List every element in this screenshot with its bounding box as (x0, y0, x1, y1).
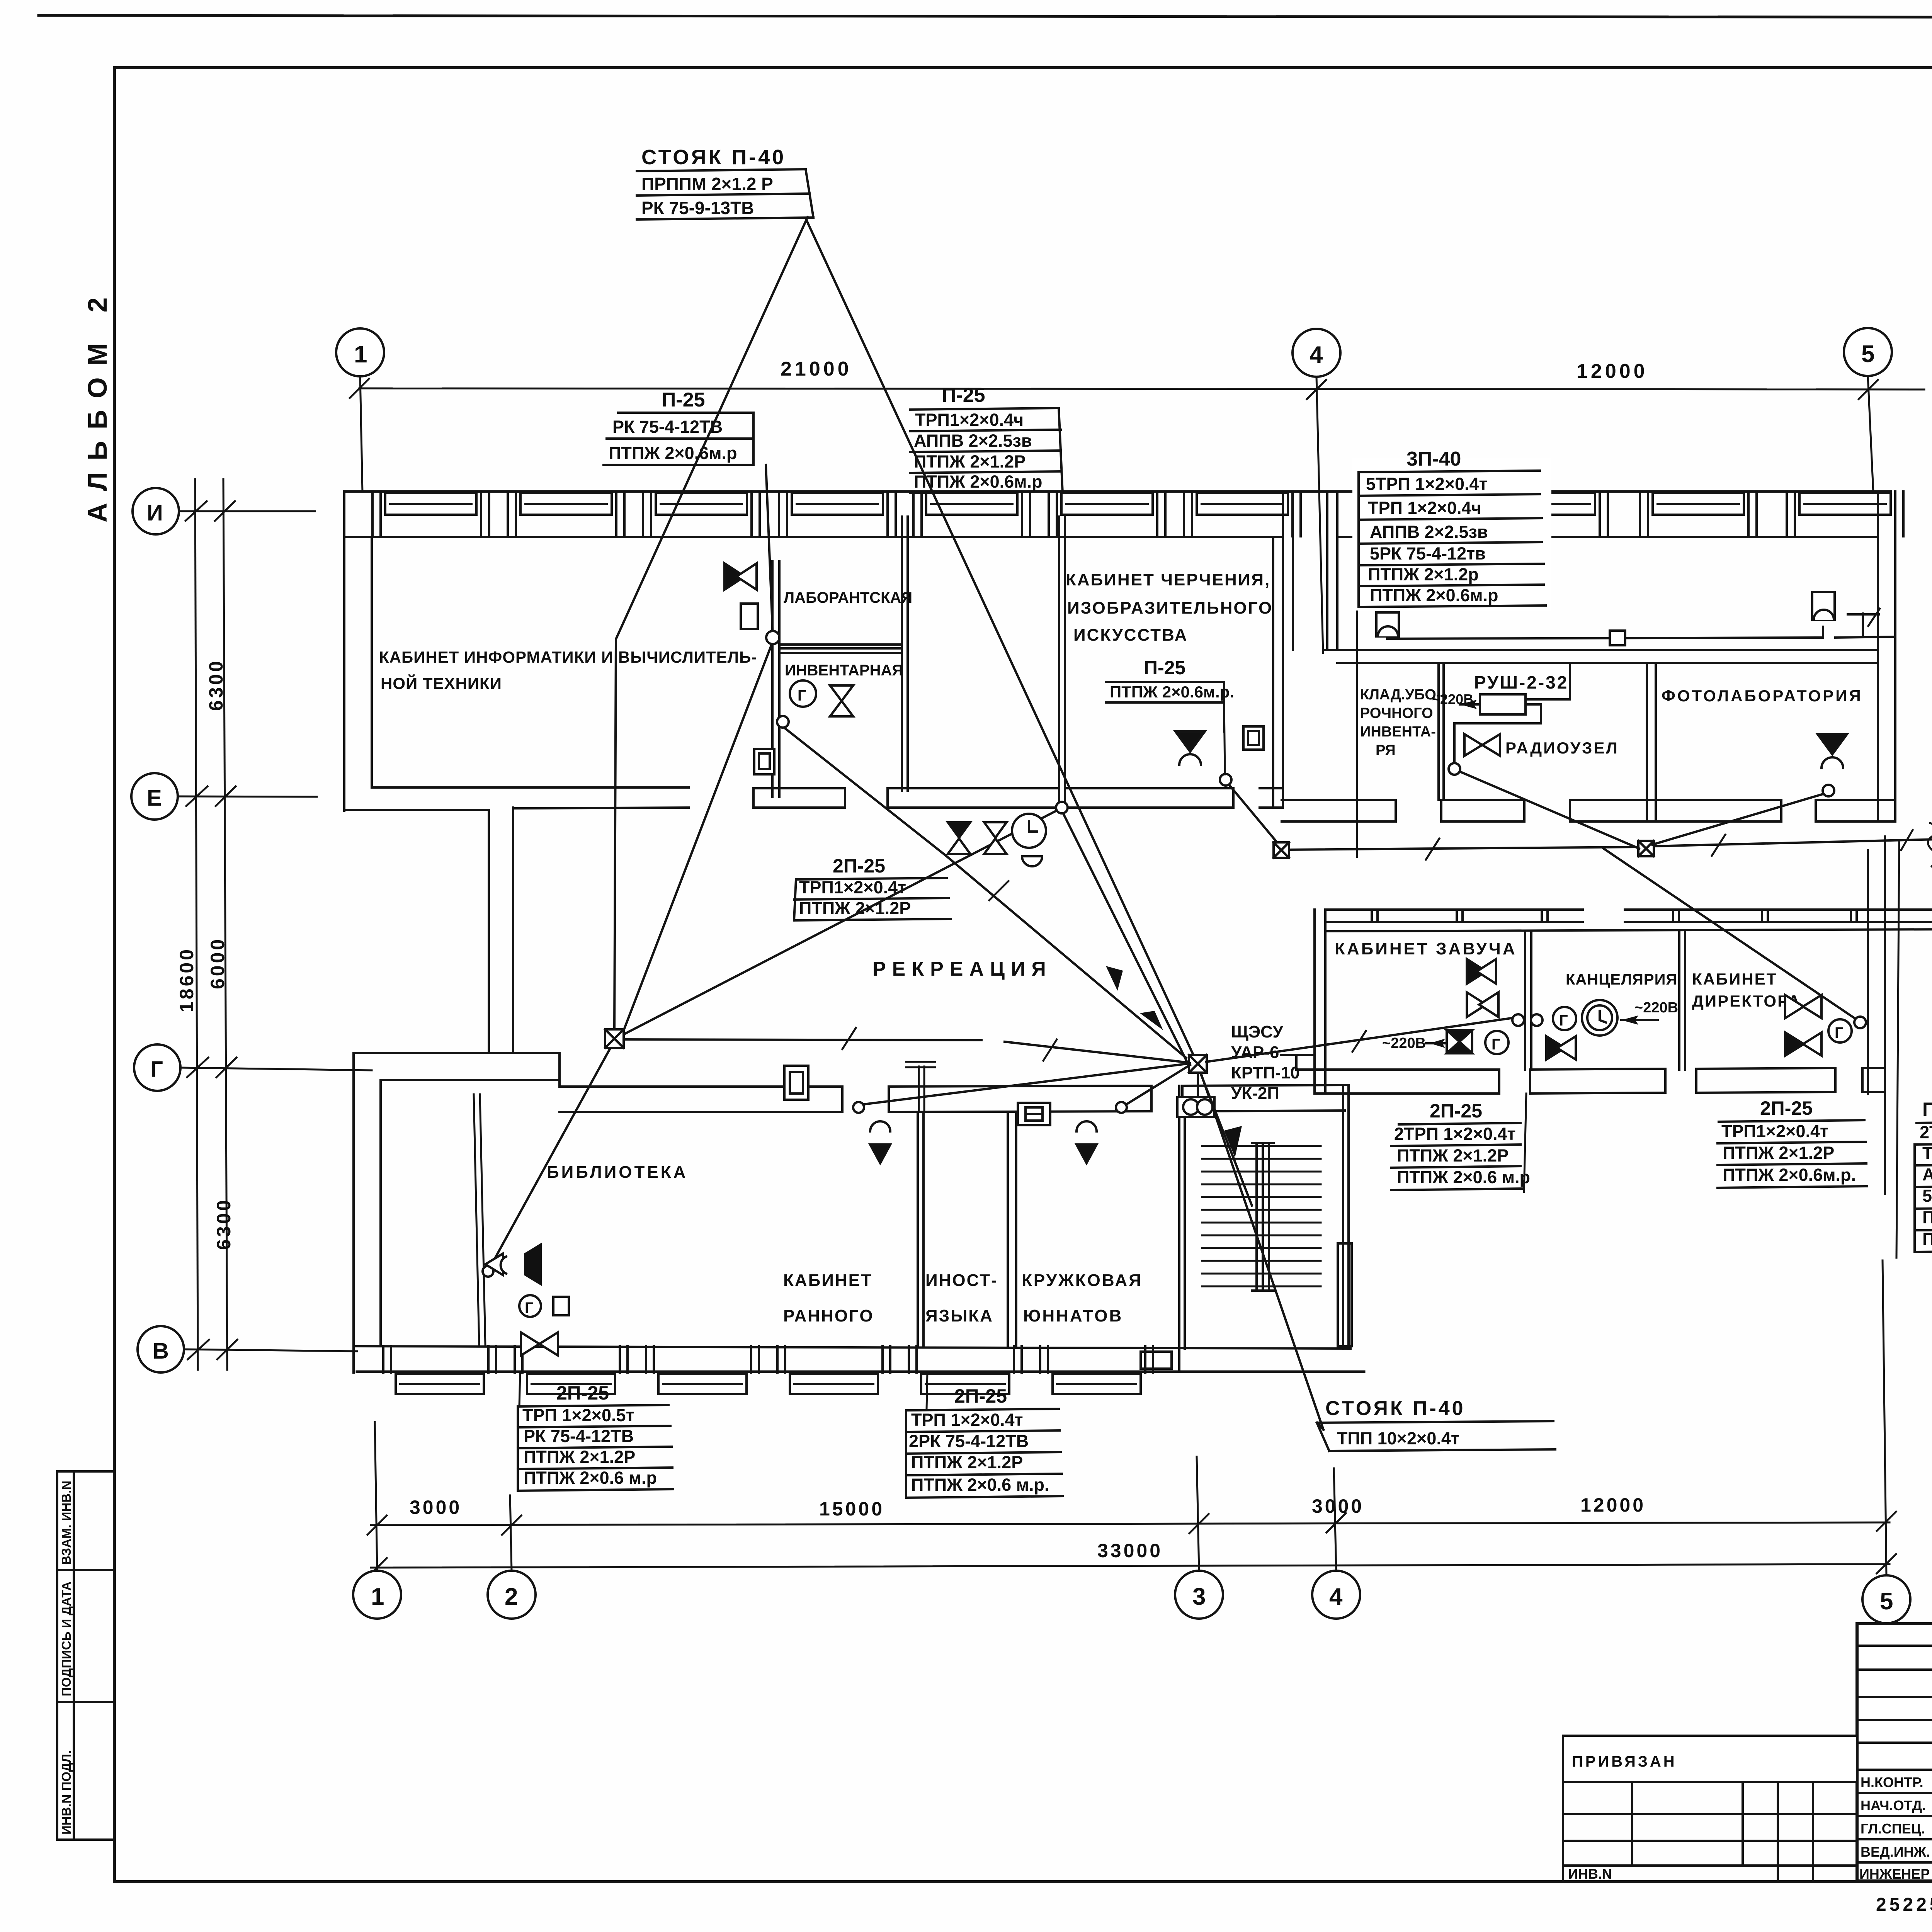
РУШ-2-32 box и проводка (1454, 663, 1570, 767)
svg-text:ГЛ.СПЕЦ.: ГЛ.СПЕЦ. (1861, 1821, 1925, 1837)
svg-text:СТОЯК П-40: СТОЯК П-40 (1325, 1397, 1466, 1420)
подвал надписи (1876, 1885, 1932, 1916)
svg-text:ЛАБОРАНТСКАЯ: ЛАБОРАНТСКАЯ (784, 589, 912, 606)
wall канцелярия/директора (1679, 931, 1685, 1070)
left stamp box (ВЗАМ.ИНВ.N / ПОДПИСЬ И ДАТА / ИНВ.N ПОДЛ.) (57, 1471, 114, 1840)
svg-text:Г: Г (1559, 1012, 1568, 1029)
svg-text:ТРП1×2×0.4ч: ТРП1×2×0.4ч (915, 410, 1024, 430)
wall библиотека/иностр.языка (918, 1112, 923, 1346)
часы рекреации (1012, 814, 1046, 866)
room label информатика (379, 648, 757, 692)
svg-text:2: 2 (505, 1583, 518, 1610)
north wall windows (372, 492, 1903, 536)
axis circle Г left (134, 1044, 372, 1091)
svg-text:ПОДПИСЬ И ДАТА: ПОДПИСЬ И ДАТА (59, 1582, 73, 1696)
fotolab block corridor wall (1324, 650, 1878, 663)
cable X2 to фотолаборатория node (1652, 793, 1827, 845)
corridor south-west wall (354, 1053, 560, 1086)
steep cable стояк П-40 к коробке L (614, 217, 808, 1029)
пристройка west wall (1315, 910, 1325, 1094)
svg-text:5: 5 (1880, 1588, 1893, 1615)
sheet outer top edge line (39, 15, 1932, 18)
svg-text:ПТПЖ 2×0.6м.р: ПТПЖ 2×0.6м.р (1370, 585, 1498, 605)
node кружковая (1116, 1102, 1127, 1113)
north outer wall line (344, 490, 1891, 493)
bottom dimension line 2 (33000) (367, 1540, 1896, 1577)
svg-text:ТРП 1×2×0.5т: ТРП 1×2×0.5т (522, 1405, 634, 1425)
svg-text:П-25: П-25 (662, 389, 705, 411)
bottom dimension line 1 (3000/15000/3000/12000) (367, 1494, 1896, 1535)
привязан grid (1563, 1782, 1857, 1882)
axis circle 5 top (1844, 328, 1892, 492)
circle Г инвентарная (790, 680, 816, 707)
svg-text:21000: 21000 (781, 358, 852, 380)
room label кабинет иностранного языка (783, 1271, 998, 1325)
svg-text:ПТПЖ 2×1.2Р: ПТПЖ 2×1.2Р (911, 1452, 1023, 1472)
lower band north wall (corridor south) (560, 1085, 1349, 1112)
перемычка слева от пристройки (1281, 1055, 1315, 1070)
cable table 3П-40 (right of axis 4) (1352, 458, 1551, 611)
светильник фотолаборатории (1818, 734, 1847, 768)
svg-text:ВЕД.ИНЖ.: ВЕД.ИНЖ. (1861, 1844, 1930, 1860)
svg-text:ЯЗЫКА: ЯЗЫКА (925, 1306, 993, 1325)
svg-text:ТРП 1×2×0.4ч: ТРП 1×2×0.4ч (1368, 498, 1481, 518)
стояк кружковой (двойная с Т) (906, 1062, 935, 1112)
title block left grid (1857, 1624, 1932, 1881)
привязан box (1563, 1736, 1857, 1782)
svg-text:РК 75-9-13ТВ: РК 75-9-13ТВ (641, 198, 754, 218)
светильники рекреации (948, 822, 1007, 854)
громкоговорители завуча (1467, 959, 1498, 1017)
north wall inner line (main block) (344, 536, 1283, 538)
corridor cable y2199 (1289, 823, 1932, 866)
черчения node left (1056, 802, 1068, 813)
щиток завуча (black X box) (1447, 1030, 1472, 1053)
west wall upper (двойная) (344, 492, 372, 811)
svg-text:ПТПЖ 2×1.2Р: ПТПЖ 2×1.2Р (914, 452, 1026, 471)
circle Г библиотеки (519, 1295, 541, 1317)
room label кружковая юннатов (1022, 1271, 1143, 1325)
светильник кабинет раннего (870, 1121, 890, 1163)
svg-text:25225-02: 25225-02 (1876, 1895, 1932, 1915)
лестница ограждение (1252, 1143, 1274, 1291)
cable hub down to лестница (стрелка) (1201, 1074, 1252, 1206)
lower band west wall (двойная) (354, 1053, 381, 1372)
hub УК-2П box with two circles (1177, 1073, 1214, 1117)
svg-text:3П-40: 3П-40 (1406, 448, 1461, 470)
громкоговоритель библиотеки нижний (521, 1332, 558, 1355)
junction box X1 (1274, 842, 1289, 858)
cable table П-25 (черчения room) (1106, 657, 1234, 731)
лаборантская node2 (777, 716, 789, 728)
розетка с крестом иняз (1018, 1103, 1050, 1125)
svg-text:РУШ-2-32: РУШ-2-32 (1474, 672, 1568, 692)
svg-text:Н.КОНТР.: Н.КОНТР. (1861, 1774, 1923, 1790)
svg-text:ПТПЖ 2×0.6м.р.: ПТПЖ 2×0.6м.р. (1723, 1165, 1856, 1185)
svg-text:ИСКУССТВА: ИСКУССТВА (1073, 626, 1188, 645)
wall иностр.языка/кружковая (1008, 1112, 1016, 1346)
wall инвентарная east (двойная) (902, 517, 908, 791)
circle Г директора (1828, 1019, 1852, 1043)
svg-text:3: 3 (1192, 1583, 1206, 1610)
cable черчения node-2 to X1 (steep) (1229, 784, 1279, 845)
svg-text:ПТПЖ 2×1.2р: ПТПЖ 2×1.2р (1368, 565, 1479, 584)
wall радиоузел/фотолаборатория (двойная) (1647, 663, 1656, 821)
svg-text:РК 75-4-12ТВ: РК 75-4-12ТВ (524, 1426, 634, 1446)
left dimension lines (176, 479, 237, 1370)
svg-text:ЩЭСУ: ЩЭСУ (1231, 1022, 1283, 1041)
svg-text:ПТПЖ 2×0.6м.р.: ПТПЖ 2×0.6м.р. (1110, 683, 1234, 701)
left stamp texts (59, 1481, 73, 1835)
axis circle 4 top (1293, 329, 1340, 653)
пристройка завуча: top windows band (1325, 910, 1932, 922)
svg-text:КАБИНЕТ ЗАВУЧА: КАБИНЕТ ЗАВУЧА (1335, 939, 1517, 958)
svg-text:ИНВЕНТА-: ИНВЕНТА- (1360, 724, 1436, 740)
cable node1 лаборантской к коробке L (623, 641, 773, 1032)
svg-text:ИЗОБРАЗИТЕЛЬНОГО: ИЗОБРАЗИТЕЛЬНОГО (1067, 599, 1273, 617)
axis circle 3 bottom (1175, 1571, 1223, 1619)
svg-text:33000: 33000 (1097, 1540, 1163, 1561)
svg-text:ИНОСТ-: ИНОСТ- (925, 1271, 998, 1290)
svg-text:ПРППМ 2×1.2 Р: ПРППМ 2×1.2 Р (641, 174, 773, 194)
fotolab block south wall segments (1282, 800, 1895, 821)
cable table П-25 (upper middle) (910, 384, 1063, 493)
svg-text:АППВ 2×2.5зв: АППВ 2×2.5зв (1370, 522, 1488, 542)
svg-text:РОЧНОГО: РОЧНОГО (1360, 705, 1433, 721)
cable table Стояк П-40 (bottom) (1317, 1397, 1555, 1451)
axis circle В left (138, 1326, 357, 1372)
коробка H у стены информатики (1243, 726, 1264, 750)
cable table Стояк П-40 (top) (637, 146, 813, 219)
title block outer rect (1857, 1624, 1932, 1881)
svg-text:ТРП 1×2×0.4т: ТРП 1×2×0.4т (911, 1410, 1023, 1430)
svg-text:Г: Г (1492, 1036, 1500, 1053)
axis circle И (133, 488, 315, 534)
svg-text:2П-25: 2П-25 (833, 855, 885, 877)
north wall inner line (fotolab block) (1337, 536, 1878, 538)
светильник инвентарная (hourglass) (830, 685, 853, 716)
cable L-box to hub (corridor run) (623, 1028, 1189, 1063)
стояк у таблицы низ слева (519, 1372, 520, 1406)
svg-text:ПТПЖ 2×0.6м.р: ПТПЖ 2×0.6м.р (609, 443, 737, 463)
громкоговоритель информатика (bowtie) (724, 563, 757, 590)
cable table 2П-25 (под кабинетом директора) (1718, 1097, 1867, 1188)
svg-text:3000: 3000 (1312, 1495, 1364, 1517)
svg-text:ПРИВЯЗАН: ПРИВЯЗАН (1572, 1753, 1677, 1770)
svg-text:~220В: ~220В (1432, 691, 1473, 707)
svg-text:АППВ 2×2.5зв: АППВ 2×2.5зв (914, 431, 1032, 451)
top dimension line 21000/12000 (350, 358, 1924, 399)
громкоговорители директора (1785, 995, 1821, 1056)
svg-text:АППВ 2×2.5 зв.: АППВ 2×2.5 зв. (1922, 1165, 1932, 1184)
пристройка east wall (1868, 837, 1885, 1194)
пристройка завуча: inner top wall (1325, 929, 1932, 931)
svg-text:~220В: ~220В (1634, 1000, 1678, 1016)
svg-text:3000: 3000 (410, 1497, 462, 1518)
svg-text:12000: 12000 (1580, 1494, 1646, 1516)
corridor west wall (двойная) (489, 808, 513, 1053)
cable X2 to радиоузел node (1459, 771, 1639, 849)
громкоговоритель радиоузла (1464, 734, 1500, 756)
svg-text:4: 4 (1310, 342, 1323, 368)
svg-text:2П-25: 2П-25 (954, 1385, 1007, 1407)
cable table П-25, 2П-40 (right) (1915, 1099, 1932, 1252)
svg-text:НАЧ.ОТД.: НАЧ.ОТД. (1861, 1798, 1926, 1813)
axis circle 2 bottom (488, 1571, 536, 1619)
cable node2 лаборантской к щиту (пара со стрелками) (784, 727, 1187, 1062)
svg-text:Г: Г (798, 687, 806, 704)
svg-text:КРТП-10: КРТП-10 (1231, 1063, 1300, 1082)
svg-text:РЕКРЕАЦИЯ: РЕКРЕАЦИЯ (872, 958, 1052, 980)
svg-text:П-25, 2П-40: П-25, 2П-40 (1922, 1099, 1932, 1120)
svg-text:ПТПЖ 2×1.2р: ПТПЖ 2×1.2р (1922, 1207, 1932, 1227)
лестница steps (1202, 1146, 1321, 1286)
черчения node right to мини-таблице (1224, 702, 1225, 774)
svg-text:ПТПЖ 2×0.6 м.р: ПТПЖ 2×0.6 м.р (1397, 1167, 1530, 1187)
axis circle Е (131, 773, 317, 820)
axis circle 5 bottom (1862, 1575, 1910, 1623)
стояк у таблицы низ середина (927, 1372, 927, 1409)
вертикаль оси 5 через фотолаб (правая) (1896, 842, 1899, 1258)
axis4 junction walls (1283, 492, 1337, 650)
~220В завуча + стрелка (1382, 1035, 1445, 1051)
svg-text:2П-25: 2П-25 (1760, 1097, 1813, 1119)
svg-text:18600: 18600 (176, 947, 197, 1012)
svg-text:НОЙ ТЕХНИКИ: НОЙ ТЕХНИКИ (381, 674, 502, 692)
svg-text:~220В: ~220В (1382, 1035, 1426, 1051)
svg-text:5РК 75-4-12тв: 5РК 75-4-12тв (1370, 544, 1486, 563)
светильник кружковая (1077, 1121, 1097, 1163)
svg-text:ПТПЖ 2×0.6 м.р.: ПТПЖ 2×0.6 м.р. (911, 1475, 1049, 1495)
svg-text:Г: Г (525, 1299, 534, 1316)
room label клад.уборочного (1360, 687, 1441, 759)
фотолаборатория node (1823, 785, 1834, 796)
svg-text:ПТПЖ 2×1.2Р: ПТПЖ 2×1.2Р (1397, 1146, 1509, 1165)
svg-text:2П-25: 2П-25 (1430, 1100, 1482, 1122)
розетка информатика (741, 604, 758, 629)
svg-text:ПТПЖ 2×1.2Р: ПТПЖ 2×1.2Р (524, 1447, 635, 1467)
svg-text:ТРП1×2×0.4т: ТРП1×2×0.4т (799, 878, 906, 897)
svg-text:ПТПЖ 2×0.6 м.р: ПТПЖ 2×0.6 м.р (524, 1468, 657, 1488)
коробка H кабинет раннего (784, 1066, 808, 1100)
cable hub to nodes нижнего ряда (864, 1063, 1190, 1105)
svg-text:1: 1 (354, 341, 367, 368)
room label черчения (1066, 570, 1273, 645)
svg-text:РАДИОУЗЕЛ: РАДИОУЗЕЛ (1505, 739, 1619, 757)
svg-text:П-25: П-25 (1144, 657, 1185, 679)
junction box X2 (1638, 841, 1654, 856)
svg-text:ТРП1×2×0.4т: ТРП1×2×0.4т (1721, 1121, 1828, 1141)
wall черчения west (двойная) (1059, 517, 1065, 791)
svg-text:15000: 15000 (819, 1498, 884, 1520)
svg-text:ВЗАМ. ИНВ.N: ВЗАМ. ИНВ.N (59, 1481, 73, 1565)
cable hub to канцелярия (1206, 1018, 1514, 1062)
antenna line (верхний коридор) (1387, 609, 1894, 645)
axis circle 1 bottom (353, 1571, 401, 1619)
лестница east wall (1338, 1085, 1352, 1349)
svg-text:ПТПЖ 2×1.2Р: ПТПЖ 2×1.2Р (1723, 1143, 1834, 1163)
граница блока (vertical line через фотолаб) (1356, 593, 1358, 857)
светильник черчения (black hourglass) (1175, 731, 1205, 765)
лестничная клетка south wall (1141, 1349, 1179, 1372)
cable table 2П-25 (под кабинетом завуча) (1391, 1100, 1530, 1190)
svg-text:2П-25: 2П-25 (556, 1382, 609, 1404)
svg-text:ПТПЖ 2×0.6 м.р.: ПТПЖ 2×0.6 м.р. (1922, 1229, 1932, 1249)
~220В канцелярии + стрелка (1621, 1000, 1678, 1025)
svg-text:ФОТОЛАБОРАТОРИЯ: ФОТОЛАБОРАТОРИЯ (1662, 687, 1863, 705)
svg-text:КЛАД.УБО-: КЛАД.УБО- (1360, 687, 1441, 703)
main diagonal стояк П-40 table to hub (806, 218, 1195, 1058)
svg-text:1: 1 (371, 1583, 384, 1610)
circle Г канцелярии (1553, 1007, 1576, 1030)
svg-text:АЛЬБОМ 2: АЛЬБОМ 2 (82, 286, 112, 522)
south wall windows (383, 1346, 1153, 1394)
wall черчения east (двойная) (1273, 537, 1283, 807)
hub junction box ЩЭСУ (1189, 1055, 1207, 1073)
svg-text:2РК 75-4-12ТВ: 2РК 75-4-12ТВ (909, 1431, 1029, 1451)
svg-text:КАБИНЕТ ИНФОРМАТИКИ И ВЫЧИСЛИТ: КАБИНЕТ ИНФОРМАТИКИ И ВЫЧИСЛИТЕЛЬ- (379, 648, 757, 666)
cable table П-25 (upper left) (604, 389, 773, 636)
стояк канцелярии вниз к таблице (1524, 1094, 1526, 1192)
node директора (1854, 1017, 1866, 1028)
svg-text:П-25: П-25 (942, 384, 985, 406)
громкоговоритель библиотеки (485, 1243, 542, 1286)
south wall outer line (357, 1371, 1364, 1373)
svg-text:ИНВ.N ПОДЛ.: ИНВ.N ПОДЛ. (59, 1750, 73, 1835)
svg-text:Е: Е (147, 786, 162, 811)
svg-text:ЮННАТОВ: ЮННАТОВ (1023, 1306, 1123, 1325)
лаборантская node1 (766, 631, 779, 644)
svg-text:2ТРП 1×2×0.4т: 2ТРП 1×2×0.4т (1394, 1124, 1516, 1144)
wall информатика/лаборантская (стояк двойной) (772, 561, 779, 797)
svg-text:6300: 6300 (213, 1198, 235, 1250)
svg-text:РК 75-4-12ТВ: РК 75-4-12ТВ (612, 417, 723, 437)
svg-text:4: 4 (1329, 1583, 1343, 1610)
svg-text:5ТРП 1×2×0.4т: 5ТРП 1×2×0.4т (1366, 474, 1488, 494)
cable table 2П-25 (рекреация) (794, 855, 951, 920)
cable table 2П-25 (bottom middle) (906, 1385, 1063, 1498)
svg-text:ТРП 1×2×0.54: ТРП 1×2×0.54 (1922, 1143, 1932, 1163)
svg-text:2ТРП 1×2×0.5т: 2ТРП 1×2×0.5т (1920, 1122, 1932, 1142)
svg-text:Г: Г (1835, 1024, 1844, 1041)
svg-text:РАННОГО: РАННОГО (783, 1306, 874, 1325)
громкоговоритель канцелярии (1546, 1036, 1576, 1060)
nodes канцелярии (1512, 1014, 1524, 1026)
черчения node right (1220, 774, 1231, 786)
часы канцелярии (1582, 1000, 1617, 1036)
библиотека стояк (двойная) (474, 1094, 485, 1345)
svg-text:СТОЯК П-40: СТОЯК П-40 (641, 146, 786, 169)
розетка библиотеки (553, 1297, 569, 1315)
громкоговоритель верхний левый (1376, 612, 1399, 636)
svg-text:РЯ: РЯ (1376, 742, 1396, 759)
svg-text:КАНЦЕЛЯРИЯ: КАНЦЕЛЯРИЯ (1566, 971, 1677, 988)
svg-text:В: В (153, 1338, 169, 1364)
cable L-box to черчения node (623, 810, 1059, 1035)
room label кабинет директора (1692, 970, 1801, 1010)
svg-text:КАБИНЕТ ЧЕРЧЕНИЯ,: КАБИНЕТ ЧЕРЧЕНИЯ, (1066, 570, 1270, 589)
svg-text:ПТПЖ 2×0.6м.р: ПТПЖ 2×0.6м.р (914, 472, 1043, 492)
svg-text:КРУЖКОВАЯ: КРУЖКОВАЯ (1022, 1271, 1143, 1290)
junction box L (рекреация west) (605, 1029, 624, 1048)
upper band bottom wall (344, 787, 1283, 810)
svg-text:ИНЖЕНЕР: ИНЖЕНЕР (1859, 1866, 1930, 1882)
axis circle 4 bottom (1312, 1571, 1360, 1619)
svg-text:КАБИНЕТ: КАБИНЕТ (1692, 970, 1777, 988)
circle Г завуча (1485, 1031, 1509, 1054)
cable corridor to директор node (1604, 849, 1859, 1021)
svg-text:КАБИНЕТ: КАБИНЕТ (783, 1271, 872, 1290)
библиотека node (483, 1266, 493, 1277)
svg-text:И: И (147, 500, 163, 526)
axis stubs bottom (375, 1260, 1886, 1575)
svg-text:5РК 75-4-12тв: 5РК 75-4-12тв (1922, 1186, 1932, 1206)
svg-text:6000: 6000 (207, 937, 228, 989)
svg-text:УК-2П: УК-2П (1231, 1084, 1279, 1103)
svg-text:12000: 12000 (1577, 360, 1648, 383)
fotolab block east wall (двойная) (1878, 492, 1895, 821)
cable table 2П-25 (bottom left) (518, 1382, 673, 1491)
south wall inner line (354, 1346, 1350, 1349)
svg-text:5: 5 (1861, 341, 1874, 367)
wall завуча/канцелярия (1525, 931, 1531, 1070)
title подписи rows (1859, 1774, 1932, 1882)
коробка H лаборантская (754, 749, 774, 774)
пристройка south wall (1315, 1068, 1885, 1094)
axis circle 1 top (336, 328, 384, 492)
node кабинет раннего (853, 1102, 864, 1113)
svg-text:БИБЛИОТЕКА: БИБЛИОТЕКА (547, 1163, 688, 1182)
cable L-box to библиотека node (490, 1046, 612, 1267)
svg-text:ТПП 10×2×0.4т: ТПП 10×2×0.4т (1337, 1429, 1459, 1448)
diagonal hub to стояк П-40 bottom label (1201, 1073, 1323, 1430)
svg-text:Г: Г (150, 1057, 163, 1082)
wall лаборантская/инвентарная (тройная) (779, 645, 902, 653)
wall клад.уборочного/радиоузел (1439, 663, 1444, 800)
громкоговоритель верхний правый (1812, 592, 1835, 620)
svg-text:ИНВЕНТАРНАЯ: ИНВЕНТАРНАЯ (785, 662, 903, 679)
svg-text:ИНВ.N: ИНВ.N (1568, 1866, 1612, 1882)
svg-text:6300: 6300 (205, 659, 227, 711)
радиоузел node (1449, 763, 1460, 775)
hub labels ЩЭСУ УАР-6 КРТП-10 УК-2П (1231, 1022, 1300, 1103)
wall кружковая/лестница (1179, 1086, 1185, 1349)
